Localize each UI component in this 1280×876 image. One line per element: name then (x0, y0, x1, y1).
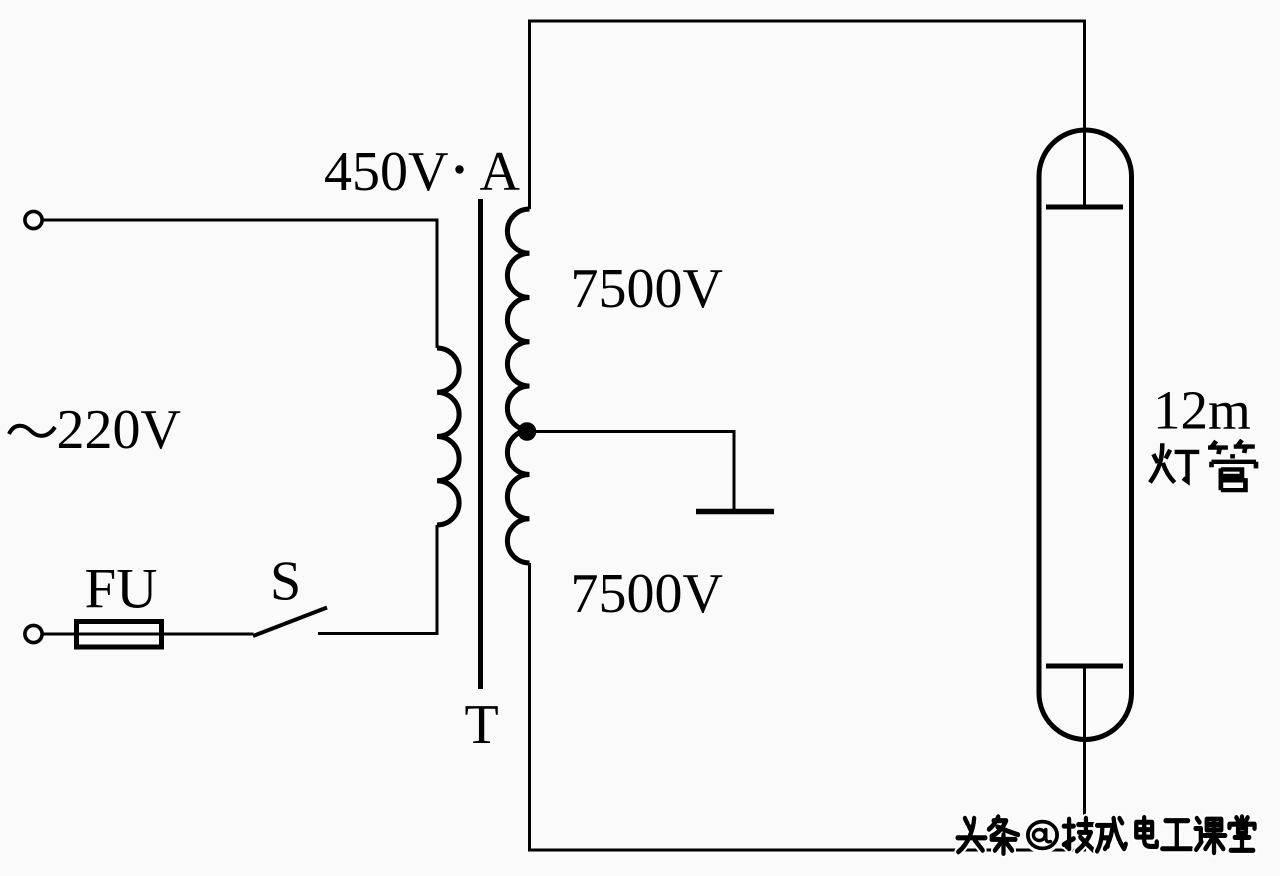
watermark 头 (958, 818, 986, 852)
svg-text:7500V: 7500V (571, 563, 723, 625)
lamp bottom electrode (1046, 664, 1123, 669)
watermark @ (1028, 822, 1057, 849)
watermark 课 (1196, 818, 1226, 852)
label 管 of 灯管 (1208, 440, 1256, 490)
svg-text:FU: FU (85, 558, 158, 621)
transformer T primary winding (437, 348, 459, 525)
fuse FU (77, 622, 162, 648)
node center tap (518, 422, 537, 441)
watermark 堂 (1229, 817, 1254, 851)
watermark 条 (989, 817, 1018, 854)
transformer core (478, 199, 483, 689)
watermark 技 (1064, 818, 1094, 851)
svg-text:220V: 220V (57, 399, 181, 461)
wire input top from terminal to transformer primary top (42, 220, 437, 348)
terminal bottom-left (25, 625, 42, 642)
watermark 电 (1136, 818, 1156, 847)
wire secondary bottom to lamp bottom (530, 563, 1085, 850)
svg-text:T: T (465, 694, 499, 756)
svg-text:12m: 12m (1153, 380, 1251, 441)
label dot of 450V·A (455, 165, 463, 173)
switch S blade (253, 608, 327, 637)
terminal top-left (25, 211, 42, 228)
watermark 工 (1162, 821, 1191, 849)
label ~ of ~220V (9, 426, 55, 436)
wire bottom input through fuse to switch (42, 633, 254, 636)
lamp tube 12m (1039, 130, 1132, 740)
lamp top electrode (1046, 205, 1123, 210)
wire secondary top to lamp top (530, 21, 1085, 209)
ground (696, 509, 774, 515)
wire center tap to ground (528, 432, 734, 510)
wire primary bottom to switch (318, 525, 437, 634)
transformer T secondary winding (507, 209, 529, 563)
svg-text:7500V: 7500V (571, 258, 723, 320)
svg-text:S: S (270, 551, 301, 613)
watermark 成 (1097, 818, 1126, 851)
svg-text:A: A (480, 141, 521, 203)
label 灯 of 灯管 (1150, 443, 1199, 482)
svg-text:450V: 450V (324, 141, 448, 203)
